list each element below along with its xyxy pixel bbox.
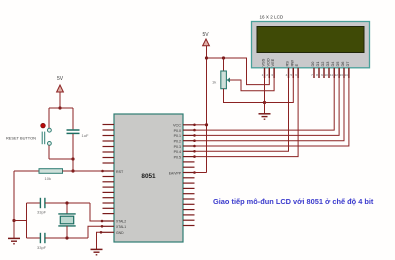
svg-text:XTAL2: XTAL2 xyxy=(116,220,126,224)
svg-text:GND: GND xyxy=(116,231,124,235)
wire: crystal top row (left part) xyxy=(27,202,41,204)
svg-text:RESET BUTTON: RESET BUTTON xyxy=(6,135,36,140)
node: VCC junction xyxy=(205,123,208,126)
node: junction cap/button bottom xyxy=(71,157,74,160)
svg-text:P0.0: P0.0 xyxy=(174,129,181,133)
svg-text:5V: 5V xyxy=(202,32,209,38)
wire: cap top branch xyxy=(72,108,74,129)
ground (left rail) xyxy=(8,238,20,243)
wire: VCC row to rail xyxy=(195,124,207,126)
wire: 5V rail down to VCC and EA xyxy=(206,46,208,173)
wire: EA row to rail xyxy=(195,172,207,174)
resistor 10k xyxy=(39,169,63,181)
wire: P0.1 row to LCD D5 xyxy=(195,68,340,136)
svg-text:P0.2: P0.2 xyxy=(174,140,181,144)
svg-text:8051: 8051 xyxy=(141,173,156,180)
wire: P0.5 row to LCD E xyxy=(195,68,299,157)
power 5V arrow (reset circuit) xyxy=(57,76,64,92)
LCD pin stubs D0-D3 (unconnected) xyxy=(314,68,349,78)
svg-text:P0.3: P0.3 xyxy=(174,145,181,149)
svg-text:E: E xyxy=(294,64,299,67)
pin XTAL2 label xyxy=(103,220,127,224)
capacitor 1uF xyxy=(67,130,89,138)
wire: P0.4 row to LCD RS xyxy=(195,68,289,152)
wire: XTAL1 rise xyxy=(88,226,103,238)
wire: XTAL2 drop xyxy=(90,203,103,221)
LCD pin labels (vertical) xyxy=(261,58,350,66)
svg-text:5V: 5V xyxy=(57,76,64,82)
svg-text:10: 10 xyxy=(324,73,328,77)
svg-text:14: 14 xyxy=(344,73,348,77)
wire: 5V branch to VDD (with jog) xyxy=(207,58,270,85)
wire: 5V down to T junction xyxy=(59,92,61,108)
pin GND label xyxy=(103,231,125,235)
wire: horizontal bottom of reset loop xyxy=(49,158,73,160)
chip right pins VCC..P0.5 with labels xyxy=(173,124,196,128)
LCD pin numbers 1-14 xyxy=(262,73,348,77)
LCD pin stubs 1-6 xyxy=(265,68,299,78)
wire: horizontal top of reset loop xyxy=(49,107,73,109)
svg-text:16 X 2 LCD: 16 X 2 LCD xyxy=(260,15,284,20)
ground (chip GND) xyxy=(91,249,103,254)
node: XTAL2 pin dot xyxy=(101,220,104,223)
chip right pin stubs P0.6 P0.7 xyxy=(183,162,195,167)
svg-text:P0.1: P0.1 xyxy=(174,134,181,138)
wire: crystal top row (right part) xyxy=(45,202,90,204)
wire: VSS pin down to ground xyxy=(264,68,266,114)
pin XTAL1 label xyxy=(103,225,127,229)
svg-text:VEE: VEE xyxy=(270,58,275,66)
wire: ground line to RW xyxy=(265,68,294,103)
capacitor 33pF (top) xyxy=(37,198,47,215)
wire: P0.2 row to LCD D6 xyxy=(195,68,345,141)
wire: pot top feed xyxy=(223,58,225,71)
node: VSS ground junction xyxy=(263,101,266,104)
wire: caps-left vertical xyxy=(26,203,28,238)
wire: rail to caps-left vertical xyxy=(14,220,27,222)
svg-text:P0.5: P0.5 xyxy=(174,155,181,159)
crystal X1 xyxy=(58,203,75,238)
chip left pin stubs (P3.x) xyxy=(103,177,115,214)
wire: RST row left of resistor xyxy=(14,170,39,172)
svg-text:P0.4: P0.4 xyxy=(174,150,181,154)
pin EA/VPP with label xyxy=(169,171,196,175)
svg-text:13: 13 xyxy=(339,73,343,77)
pin RST with label xyxy=(103,170,124,174)
potentiometer 1k xyxy=(212,71,230,89)
svg-text:EA/VPP: EA/VPP xyxy=(169,171,182,175)
svg-text:33pF: 33pF xyxy=(37,245,47,250)
capacitor 33pF (bottom) xyxy=(37,233,47,250)
wire: crystal bottom row (right part) xyxy=(45,237,88,239)
svg-text:XTAL1: XTAL1 xyxy=(116,225,126,229)
svg-text:33pF: 33pF xyxy=(37,210,47,215)
node: crystal bottom junction xyxy=(65,236,68,239)
chip right lower pin stubs xyxy=(183,178,195,226)
LCD module LCD1 body xyxy=(252,15,370,68)
svg-text:10k: 10k xyxy=(45,176,51,181)
node: GND pin dot xyxy=(100,231,103,234)
node: rail to caps branch junction xyxy=(12,219,15,222)
wire: RST row to chip RST pin xyxy=(63,170,104,172)
node: crystal top junction xyxy=(65,201,68,204)
svg-text:D7: D7 xyxy=(345,62,350,67)
node: 5V branch junction xyxy=(205,56,208,59)
svg-text:12: 12 xyxy=(335,73,339,77)
wire: button bottom branch xyxy=(48,145,50,159)
node: junction at RST row xyxy=(71,169,74,172)
svg-text:1uF: 1uF xyxy=(82,133,89,138)
node: XTAL1 pin dot xyxy=(101,225,104,228)
node: RST pin dot xyxy=(101,170,104,173)
wire: cap bottom to RST row xyxy=(72,134,74,171)
svg-text:Giao tiếp mô-đun LCD với 8051: Giao tiếp mô-đun LCD với 8051 ở chế độ 4… xyxy=(213,197,374,206)
svg-text:1k: 1k xyxy=(212,80,216,85)
op 8051 chip U1 body xyxy=(114,114,183,242)
chip left pin stubs (P1.x) xyxy=(103,125,115,164)
ground (VSS) xyxy=(259,114,271,119)
wire: P0.3 row to LCD D7 xyxy=(195,68,349,146)
wire: left ground rail xyxy=(13,171,15,238)
svg-text:RST: RST xyxy=(116,170,124,174)
pushbutton RESET BUTTON xyxy=(6,123,51,145)
wire: button top branch xyxy=(48,108,50,129)
node: T junction at top of reset branch xyxy=(58,106,61,109)
svg-text:VCC: VCC xyxy=(173,124,181,128)
wire: crystal bottom row xyxy=(27,237,41,239)
svg-text:11: 11 xyxy=(330,73,333,77)
power 5V arrow (LCD side) xyxy=(202,32,209,46)
wire: P0.0 row to LCD D4 xyxy=(195,68,335,130)
wire: pot wiper to VEE xyxy=(230,68,275,91)
node: pot top junction xyxy=(222,56,225,59)
wire: chip GND pin drop xyxy=(97,232,104,249)
wire: pot bottom to ground line xyxy=(224,89,265,103)
